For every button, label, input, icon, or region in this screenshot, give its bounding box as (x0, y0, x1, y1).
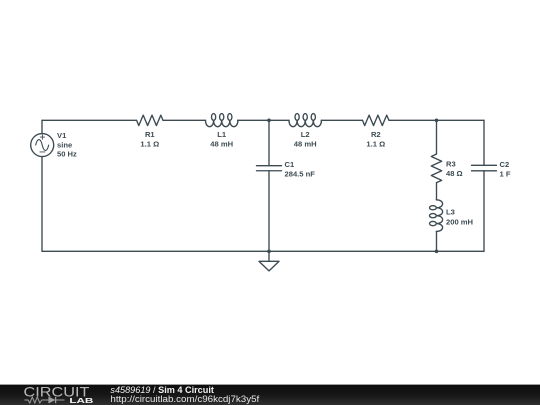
wire bottom rail (42, 250, 484, 252)
wire L3 to bottom (436, 231, 438, 251)
resistor R2 (363, 115, 390, 125)
wire L2 to R2 (321, 119, 362, 121)
capacitor C1 plates (257, 165, 282, 167)
inductor L2 (289, 120, 321, 126)
wire top rail segment V1 to R1 (42, 119, 137, 121)
svg-text:http://circuitlab.com/c96kcdj7: http://circuitlab.com/c96kcdj7k3y5f (110, 394, 259, 404)
wire R2 to right corner (389, 119, 484, 121)
svg-text:LAB: LAB (69, 396, 93, 405)
inductor L1 (206, 120, 238, 126)
resistor R3 (431, 154, 441, 183)
logo wire with resistor and diode (24, 397, 64, 403)
wire R1 to L1 (163, 119, 206, 121)
wire V1 down to bottom rail (41, 157, 43, 252)
node B junction (R3 top) (435, 119, 439, 123)
voltage source V1 (sine symbol, + and - marks) (31, 134, 54, 157)
ground symbol stub (268, 251, 270, 261)
footer bar (0, 385, 540, 405)
wire top-left corner down to V1 (41, 120, 43, 133)
wire C2 down to bottom rail (483, 171, 485, 252)
capacitor C2 plates (472, 164, 497, 166)
node ground junction (bottom rail) (267, 250, 271, 254)
node C junction (L3 bottom) (435, 250, 439, 254)
wire top-right corner down to C2 (483, 120, 485, 165)
node A junction (C1 top) (267, 119, 271, 123)
wire node A down to C1 (268, 120, 270, 165)
wire C1 down to bottom rail (268, 171, 270, 252)
ground triangle (259, 261, 279, 271)
wire L1 to L2 (238, 119, 289, 121)
resistor R1 (137, 115, 163, 125)
inductor L3 (436, 200, 442, 232)
wire R3 to L3 (436, 183, 438, 200)
wire to R3 (436, 120, 438, 154)
